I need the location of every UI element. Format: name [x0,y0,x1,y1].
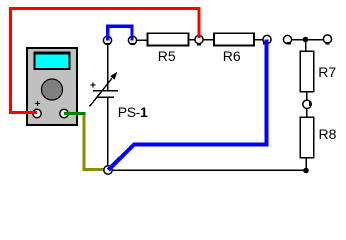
terminal multimeter common [60,109,68,117]
terminal node A left [103,36,111,44]
pad node C [287,42,291,44]
terminal bottom node [104,166,112,174]
pad node D [325,42,329,44]
terminal node C [283,35,291,43]
svg-text:+: + [90,80,96,92]
svg-text:R7: R7 [318,64,336,80]
wire red positive loop [11,9,200,113]
svg-text:PS-1: PS-1 [118,104,148,120]
resistor R7 [300,51,314,92]
junction dot bottom [303,168,309,174]
svg-text:R6: R6 [223,48,241,64]
wire green from common terminal [64,112,85,115]
resistor R5 [148,33,189,45]
pad node B [263,42,267,44]
terminal node D [323,35,331,43]
terminal junction R5 R6 [195,35,203,43]
wire olive to bottom node [84,115,105,170]
multimeter dial [42,79,63,100]
wire R8 to bottom junction [305,157,307,171]
wire junction to R6 [199,39,214,41]
pad node A left [105,43,109,45]
resistor R8 [300,117,314,158]
wire R7 to terminal E [306,91,308,105]
junction dot top [303,37,309,43]
wire node C across to node D [288,39,328,41]
wire R6 to node B [253,39,267,41]
terminal multimeter plus [33,109,41,117]
svg-text:R8: R8 [319,126,337,142]
battery PS-1 short plate [96,96,114,98]
pad terminal E [309,102,311,106]
pad junction R5 R6 [197,43,201,45]
battery PS-1 long plate [93,90,118,92]
wire terminal E to R8 [306,105,308,118]
wire node A to R5 [133,39,149,41]
wire blue node B to bottom node [108,40,267,171]
wire blue bridge node A [108,26,132,40]
svg-text:R5: R5 [158,48,176,64]
svg-text:+: + [35,99,41,110]
wire junction dot to R7 [305,40,307,53]
wire R5 to junction [188,39,199,41]
wire PS-1 top lead [107,41,109,91]
pad node A right [130,43,134,45]
wire bottom return [108,169,306,171]
resistor R6 [214,33,254,45]
wire PS-1 bottom lead [107,98,109,171]
multimeter M1 body [27,48,77,125]
battery PS-1 variable arrow [90,72,118,107]
terminal node A right [128,36,136,44]
multimeter display [34,52,71,71]
terminal E between R7 R8 [303,100,311,108]
terminal node B [263,35,271,43]
